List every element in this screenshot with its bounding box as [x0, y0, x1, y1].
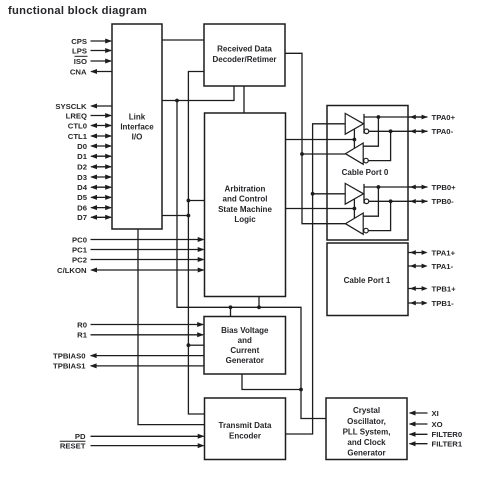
wire: bias generator bottom to clock net	[242, 374, 303, 391]
svg-text:TPBIAS0: TPBIAS0	[53, 351, 85, 360]
node LREQ: input wire	[66, 111, 112, 120]
svg-text:Logic: Logic	[234, 215, 256, 224]
bubble: TPB0 receiver inverting input	[364, 228, 369, 233]
svg-text:CNA: CNA	[70, 67, 87, 76]
svg-text:and: and	[238, 336, 252, 345]
node D4: bidirectional wire	[77, 183, 112, 192]
wire: TPA0- line	[369, 130, 428, 132]
svg-text:ISO: ISO	[74, 57, 87, 66]
svg-text:Transmit Data: Transmit Data	[219, 421, 272, 430]
node PC1: input wire	[72, 245, 204, 254]
svg-text:Oscillator,: Oscillator,	[347, 417, 386, 426]
svg-text:D2: D2	[77, 163, 87, 172]
svg-text:D5: D5	[77, 193, 88, 202]
wire: TPB0- line	[369, 200, 428, 202]
wire: arbitration enable to cable port 0 TPB pair	[286, 199, 357, 218]
wire: clock distribution net to crystal oscillator block	[177, 101, 326, 419]
wire: TPB0 driver output bar	[363, 184, 365, 204]
svg-text:Decoder/Retimer: Decoder/Retimer	[212, 55, 276, 64]
node D6: bidirectional wire	[77, 203, 112, 212]
junction: clock net stub to bias generator top	[229, 305, 233, 316]
node D0: bidirectional wire	[77, 142, 112, 151]
svg-text:Generator: Generator	[226, 356, 264, 365]
junction: clock net stub to arbitration bottom	[257, 297, 261, 310]
svg-text:CTL1: CTL1	[68, 132, 88, 141]
node PC0: input wire	[72, 235, 204, 244]
svg-text:PC0: PC0	[72, 235, 87, 244]
node RESET: input wire	[60, 441, 205, 450]
bubble: TPB0 driver inverting output	[364, 199, 369, 204]
wire: TPA0 driver output bar	[363, 114, 365, 134]
wire: transmit encoder output up to port drivers	[286, 124, 346, 434]
node TPBIAS1: output wire	[53, 362, 204, 371]
node R1: input wire	[77, 331, 204, 340]
node CTL1: bidirectional wire	[68, 132, 112, 141]
junction: TPB driver input tap	[311, 192, 346, 196]
svg-text:FILTER1: FILTER1	[432, 440, 463, 449]
node TPA0+: bidirectional pair wire	[408, 113, 456, 122]
svg-text:RESET: RESET	[60, 441, 86, 450]
wire: TPB0+ to receiver input	[363, 187, 378, 216]
node D2: bidirectional wire	[77, 163, 112, 172]
node R0: input wire	[77, 320, 204, 329]
svg-text:TPB1-: TPB1-	[432, 299, 455, 308]
node CNA: output wire	[70, 67, 112, 76]
junction: bus x188 to arbitration branch	[187, 199, 205, 203]
wire: TPB0+ line	[364, 186, 428, 188]
svg-text:PC2: PC2	[72, 255, 87, 264]
svg-text:R0: R0	[77, 320, 87, 329]
buffer: port0 TPB receiver	[345, 213, 363, 234]
node TPA1-: bidirectional pair wire	[408, 262, 454, 271]
node C/LKON: bidirectional wire	[57, 266, 204, 275]
block: Arbitration and Control State Machine Logic	[205, 113, 286, 297]
wire: received decoder left stub down bus to transmit encoder	[188, 72, 204, 415]
svg-text:State Machine: State Machine	[218, 205, 272, 214]
svg-text:PLL System,: PLL System,	[343, 427, 391, 436]
svg-text:D1: D1	[77, 152, 88, 161]
wire: TPA0- to receiver bubble	[368, 129, 392, 160]
node CTL0: bidirectional wire	[68, 121, 112, 130]
svg-text:and Control: and Control	[223, 195, 268, 204]
node LPS: input wire	[72, 46, 112, 55]
block: Link Interface I/O	[112, 24, 162, 229]
node TPA0-: bidirectional pair wire	[408, 127, 454, 136]
wire: link to received data decoder	[162, 39, 204, 41]
junction: TPA0+ receiver tap	[377, 115, 381, 119]
wire: TPB0- to receiver bubble	[368, 199, 392, 230]
node TPB1+: bidirectional pair wire	[408, 284, 456, 293]
junction: link interface to bus x188 branch	[162, 214, 190, 218]
buffer: port0 TPA driver	[345, 113, 363, 134]
bubble: TPA0 driver inverting output	[364, 129, 369, 134]
svg-text:functional block diagram: functional block diagram	[8, 5, 147, 17]
block: Received Data Decoder/Retimer	[204, 24, 285, 86]
svg-text:TPA0+: TPA0+	[432, 113, 456, 122]
svg-text:SYSCLK: SYSCLK	[55, 102, 87, 111]
svg-text:Cable Port 1: Cable Port 1	[344, 276, 391, 285]
node TPBIAS0: output wire	[53, 351, 204, 360]
svg-text:Encoder: Encoder	[229, 431, 261, 440]
svg-text:C/LKON: C/LKON	[57, 266, 87, 275]
block: Cable Port 1	[327, 243, 408, 316]
svg-text:TPB1+: TPB1+	[432, 284, 457, 293]
node D3: bidirectional wire	[77, 173, 112, 182]
node PC2: input wire	[72, 255, 204, 264]
svg-text:PD: PD	[75, 432, 86, 441]
svg-text:R1: R1	[77, 331, 88, 340]
buffer: port0 TPA receiver	[345, 143, 363, 164]
block: Bias Voltage and Current Generator	[204, 317, 286, 375]
svg-text:TPB0-: TPB0-	[432, 197, 455, 206]
svg-text:Bias Voltage: Bias Voltage	[221, 326, 269, 335]
bubble: TPA0 receiver inverting input	[364, 158, 369, 163]
block: Cable Port 0	[327, 106, 408, 241]
wire: receiver outputs to received data decoder	[285, 53, 345, 223]
wire: received decoder to arbitration logic	[243, 86, 245, 113]
svg-text:D6: D6	[77, 203, 87, 212]
svg-text:XI: XI	[432, 409, 439, 418]
junction: clock net tap on link wire	[175, 99, 179, 103]
svg-text:D0: D0	[77, 142, 87, 151]
node SYSCLK: output wire	[55, 102, 112, 111]
node TPB1-: bidirectional pair wire	[408, 299, 454, 308]
node TPA1+: bidirectional pair wire	[408, 248, 456, 257]
wire: link interface to received decoder bottom	[162, 86, 234, 101]
svg-text:Cable Port 0: Cable Port 0	[342, 168, 389, 177]
node PD: input wire	[75, 432, 205, 441]
block: Transmit Data Encoder	[205, 398, 286, 460]
svg-text:XO: XO	[432, 420, 443, 429]
node CPS: input wire	[71, 37, 112, 46]
node TPB0-: bidirectional pair wire	[408, 197, 454, 206]
block: Crystal Oscillator, PLL System, and Clock Generator	[326, 398, 407, 460]
node D5: bidirectional wire	[77, 193, 112, 202]
svg-text:CPS: CPS	[71, 37, 87, 46]
svg-text:FILTER0: FILTER0	[432, 430, 463, 439]
node TPB0+: bidirectional pair wire	[408, 183, 456, 192]
svg-text:Received Data: Received Data	[217, 44, 272, 53]
wire: TPA0+ line	[364, 116, 428, 118]
node XO: input wire	[409, 420, 443, 429]
junction: TPB0+ receiver tap	[377, 185, 381, 189]
wire: link interface bottom to transmit encoder	[138, 229, 205, 425]
node FILTER1: input wire	[409, 440, 463, 449]
node FILTER0: input wire	[409, 430, 462, 439]
svg-text:D3: D3	[77, 173, 87, 182]
svg-text:Crystal: Crystal	[353, 406, 380, 415]
svg-text:Arbitration: Arbitration	[225, 184, 266, 193]
svg-text:TPA0-: TPA0-	[432, 127, 454, 136]
svg-text:D4: D4	[77, 183, 88, 192]
wire: TPA0+ to receiver input	[363, 117, 378, 146]
node D1: bidirectional wire	[77, 152, 112, 161]
node XI: input wire	[409, 409, 439, 418]
junction: port0 TPA receiver output tap	[300, 152, 345, 156]
svg-text:LREQ: LREQ	[66, 111, 87, 120]
svg-text:TPBIAS1: TPBIAS1	[53, 362, 86, 371]
svg-text:Generator: Generator	[347, 448, 385, 457]
svg-text:TPA1-: TPA1-	[432, 262, 454, 271]
svg-text:Current: Current	[230, 346, 259, 355]
node ISO: input wire	[74, 57, 112, 66]
title: functional block diagram	[8, 5, 147, 17]
junction: bus x188 to bias generator branch	[187, 343, 205, 347]
svg-text:Interface: Interface	[120, 122, 154, 131]
buffer: port0 TPB driver	[345, 183, 363, 204]
svg-text:D7: D7	[77, 213, 87, 222]
svg-text:TPA1+: TPA1+	[432, 248, 456, 257]
wire: arbitration enable to cable port 0 TPA pair	[286, 129, 357, 148]
svg-text:LPS: LPS	[72, 46, 87, 55]
svg-text:Link: Link	[129, 112, 146, 121]
svg-text:PC1: PC1	[72, 245, 88, 254]
svg-text:I/O: I/O	[132, 132, 143, 141]
svg-text:TPB0+: TPB0+	[432, 183, 457, 192]
svg-text:and Clock: and Clock	[347, 438, 386, 447]
node D7: bidirectional wire	[77, 213, 112, 222]
svg-text:CTL0: CTL0	[68, 121, 87, 130]
